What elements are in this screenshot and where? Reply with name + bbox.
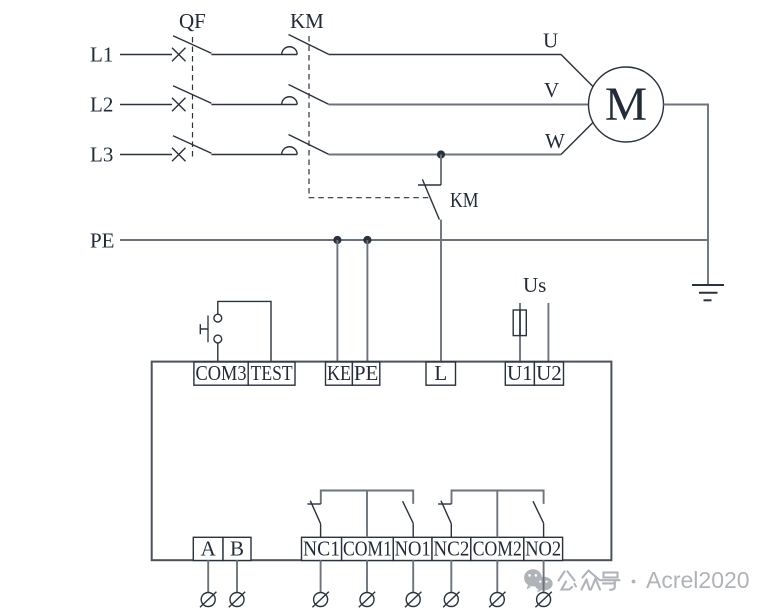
breaker QF pole 1 x-mark <box>172 48 186 62</box>
terminal COM3 <box>194 362 248 385</box>
wire KE stub <box>336 240 338 362</box>
terminal L <box>426 362 456 385</box>
svg-text:PE: PE <box>354 361 379 385</box>
svg-text:Us: Us <box>523 273 546 297</box>
svg-text:L: L <box>434 361 447 385</box>
motor M circle <box>589 67 664 142</box>
relay 2 NC seat <box>438 503 451 505</box>
wire stub below NC1 <box>320 560 322 592</box>
wire U row to motor <box>329 55 594 87</box>
contactor KM pole 1 arc <box>282 47 298 55</box>
terminal PE2 <box>352 362 379 385</box>
svg-text:A: A <box>201 536 217 560</box>
contactor KM mechanical link (dashed) <box>309 36 432 198</box>
wire between QF and KM row 1 <box>211 54 297 56</box>
relay 1 NO blade <box>403 501 414 523</box>
svg-text:NC2: NC2 <box>433 536 469 560</box>
device box outline <box>152 362 612 561</box>
breaker QF pole 3 blade <box>173 136 211 154</box>
terminal NC1 <box>302 537 342 560</box>
wire between QF and KM row 2 <box>211 104 297 106</box>
junction dot KE tap <box>333 236 341 244</box>
ground symbol <box>692 285 724 300</box>
external terminal symbol below NO1 <box>406 593 420 607</box>
wire aux contact to L terminal <box>440 220 442 362</box>
breaker QF pole 2 x-mark <box>172 98 186 112</box>
svg-text:KE: KE <box>327 361 351 385</box>
svg-text:QF: QF <box>179 9 206 33</box>
wire stub below A <box>207 560 209 592</box>
watermark chinese text gong-zhong-hao (drawn strokes) <box>559 572 577 590</box>
push button lower wire <box>217 343 219 362</box>
external terminal symbol below NO2 <box>537 593 551 607</box>
wire W row to motor <box>329 154 561 156</box>
terminal NO1 <box>393 537 432 560</box>
watermark wechat icon <box>524 569 553 592</box>
contactor KM pole 2 blade <box>289 85 329 105</box>
wire W tap down <box>440 155 442 186</box>
wire L2 feeder <box>120 104 172 106</box>
contactor KM pole 1 blade <box>289 35 329 55</box>
terminal NC2 <box>432 537 471 560</box>
terminal A <box>193 537 223 560</box>
terminal U2 <box>534 362 563 385</box>
svg-text:U1: U1 <box>507 361 533 385</box>
contactor KM pole 3 blade <box>289 135 329 155</box>
terminal TEST <box>248 362 295 385</box>
wire motor to earth <box>664 105 709 286</box>
svg-text:W: W <box>545 129 565 153</box>
push button contact circles <box>214 314 222 322</box>
relay 1 NC seat <box>307 503 320 505</box>
svg-text:KM: KM <box>450 188 479 212</box>
terminal COM1 <box>342 537 394 560</box>
wire stub below NO2 <box>543 560 545 592</box>
wire stub below COM1 <box>366 560 368 592</box>
svg-text:NO1: NO1 <box>395 536 431 560</box>
wire between QF and KM row 3 <box>211 154 297 156</box>
relay 1 bar and poles <box>321 491 413 505</box>
breaker QF pole 2 blade <box>173 86 211 104</box>
junction dot PE tap <box>363 236 371 244</box>
terminal U1 <box>505 362 534 385</box>
svg-text:PE: PE <box>90 229 115 253</box>
svg-text:Acrel2020: Acrel2020 <box>646 567 750 593</box>
wire PE stub <box>366 240 368 362</box>
wire stub below B <box>236 560 238 592</box>
wire L3 feeder <box>120 154 172 156</box>
wire stub below NC2 <box>450 560 452 592</box>
wire stub below NO1 <box>412 560 414 592</box>
contactor KM pole 2 arc <box>282 97 298 105</box>
contact KM aux blade <box>422 179 439 219</box>
breaker QF pole 3 x-mark <box>172 148 186 162</box>
terminal NO2 <box>524 537 563 560</box>
wire U1 supply <box>519 303 521 362</box>
svg-text:COM1: COM1 <box>343 536 392 560</box>
svg-text:COM3: COM3 <box>196 361 247 385</box>
junction dot W tap <box>437 150 445 158</box>
svg-text:KM: KM <box>290 9 324 33</box>
terminal COM2 <box>471 537 524 560</box>
relay 2 NO blade <box>533 501 544 523</box>
terminal KE <box>326 362 353 385</box>
contact KM aux seat <box>418 184 441 186</box>
svg-text:B: B <box>230 536 244 560</box>
watermark separator and Acrel2020 <box>632 580 636 584</box>
wire V row to motor <box>329 104 589 106</box>
wire U2 supply <box>547 303 549 362</box>
svg-text:NC1: NC1 <box>303 536 340 560</box>
svg-text:TEST: TEST <box>251 361 293 385</box>
svg-text:V: V <box>544 78 559 102</box>
external terminal symbol below COM1 <box>360 593 374 607</box>
wire PE <box>120 239 708 241</box>
external terminal symbol below COM2 <box>490 593 504 607</box>
svg-text:M: M <box>605 79 647 131</box>
wire stub below COM2 <box>496 560 498 592</box>
svg-text:L1: L1 <box>90 43 113 67</box>
svg-text:NO2: NO2 <box>525 536 561 560</box>
external terminal symbol below NC2 <box>444 593 458 607</box>
push button actuator <box>207 316 209 343</box>
svg-text:L3: L3 <box>90 143 113 167</box>
external terminal symbol below NC1 <box>314 593 328 607</box>
push button wiring <box>218 301 271 362</box>
relay 2 bar and poles <box>452 491 544 505</box>
external terminal symbol below A <box>201 593 215 607</box>
svg-text:U2: U2 <box>536 361 562 385</box>
relay 1 NC blade <box>310 501 320 524</box>
svg-text:U: U <box>543 29 558 53</box>
terminal B <box>223 537 251 560</box>
contactor KM pole 3 arc <box>282 147 298 155</box>
wire L1 feeder <box>120 54 172 56</box>
breaker QF pole 1 blade <box>173 36 211 54</box>
external terminal symbol below B <box>230 593 244 607</box>
relay 2 NC blade <box>441 501 451 524</box>
breaker QF mechanical link (dashed) <box>192 37 194 160</box>
wire W diagonal <box>561 122 593 154</box>
svg-text:COM2: COM2 <box>473 536 522 560</box>
fuse FU <box>513 310 526 336</box>
svg-text:L2: L2 <box>90 93 113 117</box>
